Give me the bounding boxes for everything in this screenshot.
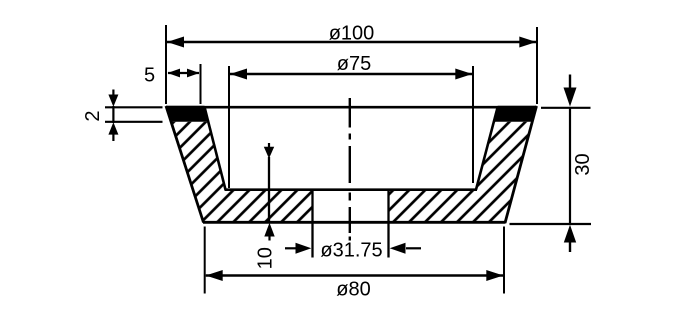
dim dia80: right extension line [503, 227, 505, 294]
left outer wall edge [166, 106, 204, 223]
dim dia100: left arrow [167, 37, 184, 48]
svg-text:2: 2 [82, 110, 104, 121]
dim 2: top extension line [105, 106, 163, 108]
dim 10: lower arrow (points up) [264, 223, 274, 237]
dim 10: upper stub and arrow (points down) [268, 143, 270, 148]
dim 30: top extension line [541, 107, 591, 109]
right outer wall edge [505, 106, 537, 223]
dim 2: lower arrow (points up) [108, 122, 118, 134]
dim dia75: left extension line [228, 66, 230, 188]
recess floor line (continuous across bore) [225, 188, 478, 191]
dim dia31.75: right arrow (points left) [406, 247, 421, 249]
dim 5: right extension line [200, 64, 202, 104]
dim dia80: right arrow [486, 270, 503, 281]
abrasive band right (solid black) [494, 106, 537, 122]
top rim line [166, 106, 537, 109]
dim dia100: left extension line [165, 25, 167, 104]
dim 2: dimension line through gap [112, 106, 114, 123]
center line (dash-dot segments) [349, 98, 351, 241]
dim 5: left arrow [168, 69, 181, 78]
bore left edge + extension for dia31.75 [311, 190, 313, 258]
dim dia75: dimension line [230, 73, 472, 76]
wheel left wall+base hatched section [171, 122, 313, 223]
wheel right wall+base hatched section [389, 122, 533, 223]
dim dia100: right extension line [536, 27, 538, 104]
dim dia75: left arrow [230, 69, 247, 80]
dim dia80: left arrow [206, 270, 223, 281]
svg-text:ø80: ø80 [336, 279, 370, 301]
bore right edge + extension for dia31.75 [387, 190, 389, 258]
dim 30: dimension line [569, 108, 571, 224]
dim 5: dimension line [168, 72, 199, 74]
svg-text:ø31.75: ø31.75 [320, 240, 382, 262]
dim dia100: right arrow [519, 37, 536, 48]
dim dia31.75: left arrow (points right) [285, 247, 300, 249]
dim 30: bottom extension line [510, 223, 592, 225]
right inner wall edge [476, 107, 498, 190]
svg-text:ø100: ø100 [329, 23, 375, 45]
dim dia75: right arrow [455, 69, 472, 80]
dim 30: top arrow (points down) [569, 75, 571, 89]
svg-text:ø75: ø75 [337, 53, 371, 75]
abrasive band left (solid black) [166, 106, 208, 122]
dim 10: line through flange [268, 157, 270, 223]
svg-text:30: 30 [572, 153, 594, 175]
bottom edge [203, 221, 506, 224]
dim 30: bottom arrow (points up) [564, 225, 576, 243]
dim dia80: dimension line [206, 274, 503, 277]
left inner wall edge [205, 107, 226, 190]
dim 2: bottom extension line [105, 121, 163, 123]
svg-text:5: 5 [144, 64, 155, 86]
dim 5: right arrow [187, 69, 200, 78]
dim dia75: right extension line [472, 66, 474, 183]
dim dia80: left extension line [204, 227, 206, 294]
dim 2: upper arrow (points down) [112, 90, 114, 96]
svg-text:10: 10 [255, 247, 277, 269]
dim dia100: dimension line [167, 41, 536, 44]
